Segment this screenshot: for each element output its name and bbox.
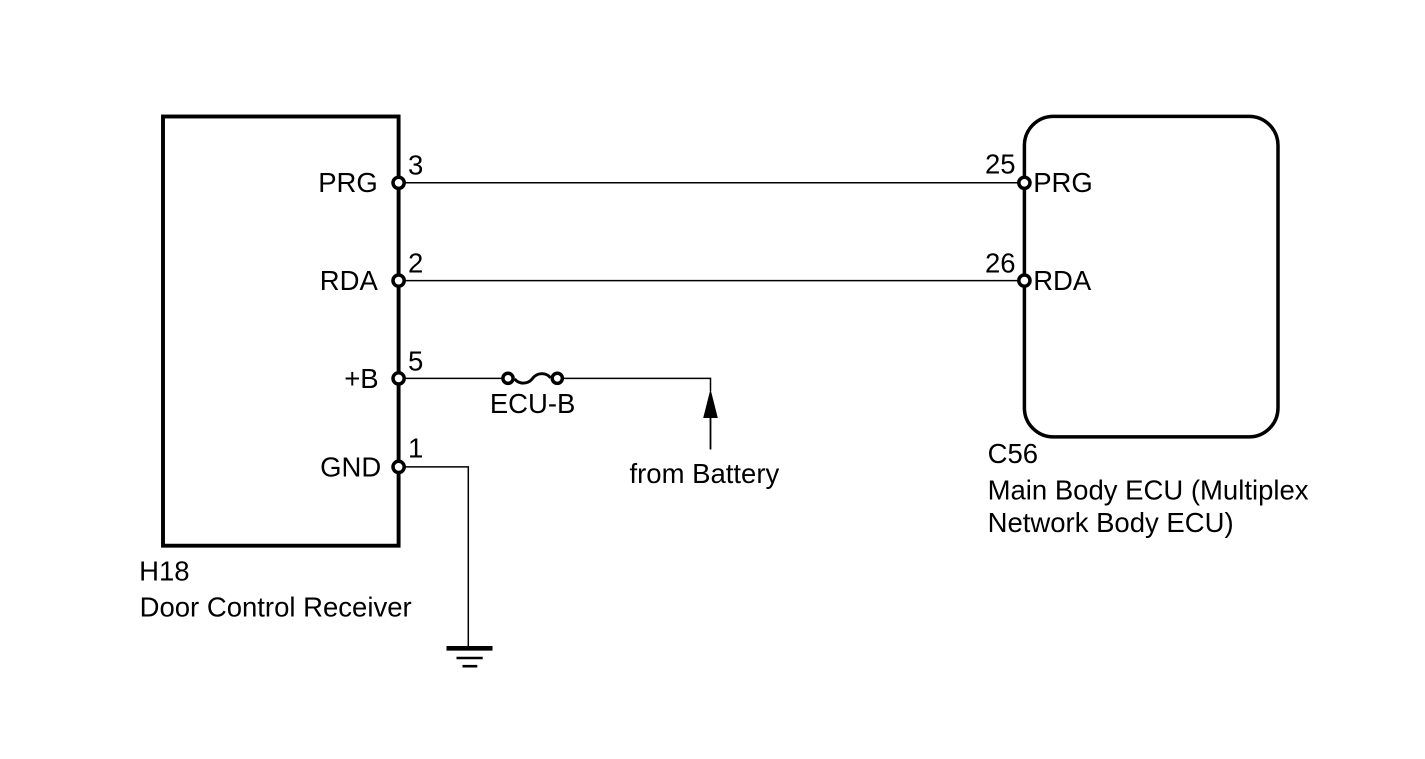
connector H18 box (Door Control Receiver) <box>163 117 399 546</box>
svg-text:PRG: PRG <box>318 167 378 198</box>
svg-text:1: 1 <box>408 433 423 464</box>
svg-text:Network Body ECU): Network Body ECU) <box>988 507 1234 538</box>
wire +B net: pin 5 to fuse <box>399 377 508 379</box>
connector C56 box (Main Body ECU) <box>1024 116 1278 437</box>
svg-text:Main Body ECU (Multiplex: Main Body ECU (Multiplex <box>988 474 1309 505</box>
svg-text:C56: C56 <box>988 438 1038 469</box>
pin 26 (RDA) of C56 <box>1019 275 1030 286</box>
wire GND net: pin 1 to ground <box>399 467 469 648</box>
svg-text:+B: +B <box>344 363 378 394</box>
svg-text:PRG: PRG <box>1033 167 1093 198</box>
pin 25 (PRG) of C56 <box>1019 177 1030 188</box>
svg-text:from Battery: from Battery <box>630 458 780 489</box>
svg-text:5: 5 <box>408 345 423 376</box>
svg-text:RDA: RDA <box>320 265 379 296</box>
wire RDA net (pin 2 H18 to pin 26 C56) <box>399 280 1025 282</box>
fuse ECU-B wave element <box>515 374 551 383</box>
pin 2 (RDA) of H18 <box>393 275 404 286</box>
svg-text:2: 2 <box>408 247 423 278</box>
svg-text:Door Control Receiver: Door Control Receiver <box>140 592 412 623</box>
from Battery arrow shaft <box>710 416 712 450</box>
wire +B net: fuse to battery feed corner <box>557 378 710 391</box>
ground symbol bar 1 (top) <box>447 646 493 651</box>
ground symbol bar 2 (middle) <box>457 657 483 660</box>
svg-text:26: 26 <box>985 247 1016 278</box>
ground symbol bar 3 (bottom) <box>463 665 478 668</box>
svg-text:25: 25 <box>985 148 1016 179</box>
pin 5 (+B) of H18 <box>393 373 404 384</box>
wire PRG net (pin 3 H18 to pin 25 C56) <box>399 182 1025 184</box>
fuse ECU-B left terminal circle <box>503 373 513 383</box>
from Battery arrow head <box>703 389 718 418</box>
svg-text:ECU-B: ECU-B <box>490 388 576 419</box>
fuse ECU-B right terminal circle <box>552 373 562 383</box>
svg-text:GND: GND <box>320 451 381 482</box>
svg-text:H18: H18 <box>139 555 189 586</box>
svg-text:3: 3 <box>408 150 423 181</box>
svg-text:RDA: RDA <box>1033 265 1092 296</box>
pin 3 (PRG) of H18 <box>393 177 404 188</box>
pin 1 (GND) of H18 <box>393 461 404 472</box>
